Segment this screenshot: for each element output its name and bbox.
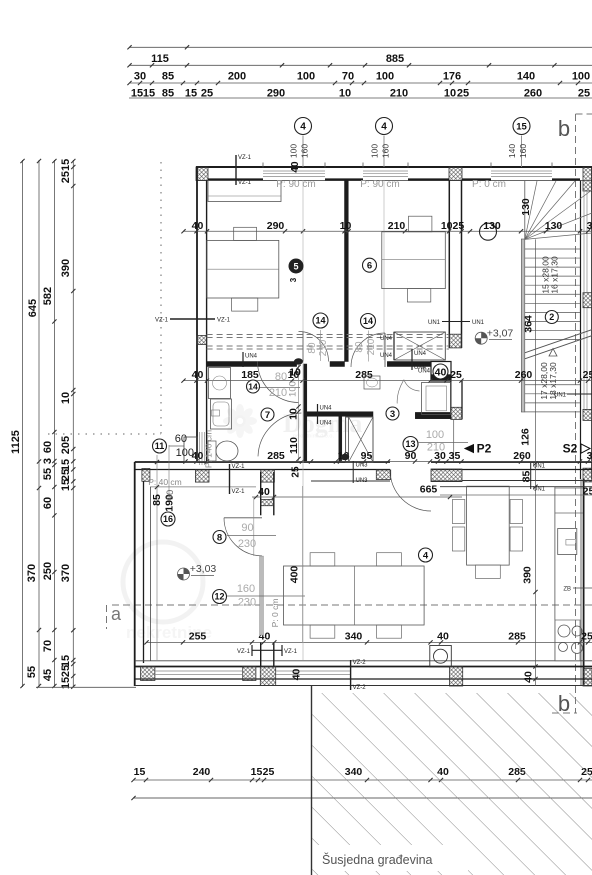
svg-text:210: 210 (427, 442, 445, 454)
wall room6 / stairwell x449-461 (448, 181, 450, 349)
baseline at bottom of left dims (36, 686, 136, 688)
svg-text:210: 210 (269, 387, 287, 399)
wall stub x260-274 (room16/living) (260, 472, 262, 515)
door 12 gray leaf (260, 556, 264, 635)
door arc room7 entry (258, 362, 299, 403)
window in left wall (bathroom P:140) (199, 432, 201, 465)
door 14 room5: pivot dot (294, 358, 303, 364)
svg-text:3: 3 (42, 458, 54, 464)
bed room 5 (207, 240, 279, 298)
svg-text:90: 90 (165, 490, 176, 501)
svg-text:250: 250 (42, 562, 54, 580)
svg-text:40: 40 (523, 671, 535, 683)
hatched pier wall stub lower end (261, 500, 274, 506)
svg-text:VZ-1: VZ-1 (238, 180, 252, 186)
svg-text:UN4: UN4 (245, 354, 258, 360)
svg-text:14: 14 (315, 316, 325, 326)
window in top wall (363, 170, 408, 172)
svg-text:25: 25 (263, 766, 275, 778)
P2 S2 section arrows (464, 444, 474, 453)
shaft 11 outside wall (184, 437, 197, 462)
svg-text:14: 14 (363, 316, 373, 326)
dim chain y380.6 (183, 380, 592, 382)
sink/hob circles (558, 625, 570, 637)
hatched pier left wall mid (197, 336, 207, 345)
wall stub lower x260-274 to bottom wall (260, 642, 262, 667)
svg-text:4: 4 (423, 550, 429, 561)
hatched pier right wall 1 (583, 293, 592, 308)
left dimension line 2 (645 370 55) (38, 160, 40, 687)
svg-text:15: 15 (60, 479, 72, 491)
svg-text:VZ-1: VZ-1 (232, 464, 246, 470)
hatched pier bottom wall a (141, 667, 155, 681)
inner floor line above bottom wall (135, 660, 592, 662)
svg-text:340: 340 (345, 631, 363, 643)
svg-text:90: 90 (241, 522, 253, 534)
left exterior wall (196, 167, 198, 462)
callout 15 third window (513, 118, 530, 135)
svg-text:UN4: UN4 (320, 406, 333, 412)
svg-text:210: 210 (388, 220, 406, 232)
door number 13 (403, 437, 418, 452)
svg-text:b: b (558, 116, 570, 141)
door number 14 room7 (247, 380, 260, 393)
svg-text:40: 40 (290, 161, 301, 173)
svg-text:VZ-1: VZ-1 (155, 318, 169, 324)
svg-text:95: 95 (361, 450, 373, 462)
svg-text:P: 40 cm: P: 40 cm (148, 477, 182, 487)
svg-text:370: 370 (60, 564, 72, 582)
svg-text:Šusjedna građevina: Šusjedna građevina (322, 852, 433, 867)
counter block outline (555, 620, 580, 661)
svg-text:130: 130 (483, 220, 501, 232)
svg-text:140: 140 (517, 71, 535, 83)
stair treads (525, 248, 580, 250)
windows bottom wall (155, 670, 242, 672)
top dimension chain row 3 (1515 85 1525 290 10 210 1025 260 25) (129, 82, 592, 84)
svg-text:80: 80 (307, 342, 318, 354)
svg-text:1025: 1025 (441, 220, 465, 232)
windows right wall (583, 191, 585, 292)
svg-text:UN4: UN4 (414, 365, 427, 371)
stair winder fan lines (525, 181, 537, 239)
svg-text:200: 200 (228, 71, 246, 83)
svg-text:+3,03: +3,03 (190, 563, 217, 575)
UN1 tie right wall (567, 393, 592, 395)
svg-text:60: 60 (42, 441, 54, 453)
room16 vertical dim line (156, 455, 158, 660)
toilet room3 (364, 376, 380, 389)
svg-text:70: 70 (342, 71, 354, 83)
svg-text:+3,07: +3,07 (487, 328, 514, 340)
wardrobe room5 top (208, 181, 281, 202)
svg-text:P: 90 cm: P: 90 cm (276, 179, 315, 190)
svg-text:P: 90 cm: P: 90 cm (360, 179, 399, 190)
leader door 14 labels (260, 387, 300, 389)
hatched pier top wall (449, 167, 462, 181)
ZB tie (573, 587, 592, 589)
level marker +3.03 (178, 568, 190, 580)
svg-text:UN1: UN1 (533, 464, 546, 470)
svg-text:260: 260 (515, 369, 533, 381)
section marker b bottom (552, 712, 577, 714)
chairs top (310, 553, 335, 566)
svg-text:130: 130 (520, 198, 532, 216)
dining table (284, 566, 425, 625)
svg-text:13: 13 (405, 439, 415, 449)
wall jamb x338.8-341.8 solid (339, 416, 342, 462)
stair cut break double diagonal (525, 336, 592, 359)
UN1 tie kitchen wall vertical (530, 463, 532, 489)
svg-text:70: 70 (42, 640, 54, 652)
hatched pier top-left corner (196, 167, 208, 181)
svg-text:160: 160 (300, 144, 310, 158)
room16 inner wall face line (150, 487, 152, 661)
UN4 ties room3 wall (317, 404, 319, 424)
kitchen low wall lines right part (462, 480, 592, 482)
svg-text:30: 30 (134, 71, 146, 83)
callout 4 first window (295, 118, 312, 135)
svg-text:3: 3 (587, 450, 592, 462)
room number 2 (staircase) (545, 311, 558, 324)
door number 14 room6 (361, 314, 376, 329)
svg-text:15: 15 (516, 121, 527, 132)
left dimension line 4 (2515 390 10 205 15 25 15 370 15 25 15) (72, 160, 74, 687)
svg-text:P: 0 cm: P: 0 cm (270, 599, 280, 628)
room number 6 (363, 258, 377, 272)
svg-text:260: 260 (513, 450, 531, 462)
svg-text:12: 12 (214, 592, 224, 602)
door number 14 room5 (313, 313, 328, 328)
svg-text:10: 10 (340, 220, 352, 232)
svg-text:100: 100 (288, 381, 299, 397)
room number 4 living room (419, 548, 433, 562)
watermark (123, 404, 362, 642)
svg-text:285: 285 (508, 631, 526, 643)
window in top wall (263, 170, 325, 172)
svg-text:210: 210 (366, 338, 377, 355)
svg-text:16: 16 (163, 514, 173, 524)
svg-text:390: 390 (522, 566, 534, 584)
hatched pier mid wall c (261, 470, 275, 482)
UN3 tie mid wall (352, 461, 354, 483)
shower south wall solid (415, 412, 451, 418)
svg-text:80: 80 (275, 371, 287, 383)
svg-text:40: 40 (258, 486, 270, 498)
door arc hall to living (390, 470, 431, 511)
svg-text:110: 110 (288, 437, 300, 454)
svg-text:3: 3 (289, 277, 298, 282)
svg-text:2: 2 (549, 312, 554, 322)
top exterior wall (196, 166, 592, 168)
svg-text:160: 160 (518, 144, 528, 158)
svg-text:255: 255 (189, 631, 207, 643)
toilet (208, 441, 216, 461)
dotted construction line vertical (160, 162, 162, 434)
svg-text:390: 390 (60, 259, 72, 277)
svg-text:210: 210 (318, 339, 329, 356)
nook chairs (452, 500, 464, 524)
svg-text:10: 10 (289, 367, 301, 379)
section line b dashed vertical (575, 114, 577, 713)
nook table (467, 486, 510, 565)
svg-text:4: 4 (300, 122, 306, 133)
hatched pier right wall 2 (583, 409, 592, 420)
svg-text:P: 0 cm: P: 0 cm (472, 179, 506, 190)
door number 8 (213, 531, 226, 544)
bathtub (211, 399, 232, 429)
door hall to room3 (petal) (404, 380, 420, 391)
leader door 12 labels (227, 595, 305, 597)
leader door 8 labels (227, 534, 276, 536)
svg-text:UN1: UN1 (428, 320, 441, 326)
hatched pier top-right corner (583, 167, 592, 191)
svg-text:130: 130 (545, 220, 563, 232)
svg-text:370: 370 (26, 564, 38, 582)
stair strip left stringer (521, 239, 525, 412)
hatched pier right of shower wall (451, 407, 462, 419)
svg-text:S2: S2 (563, 442, 578, 456)
wall corridor/room7 east x303.8-306.8 solid (304, 364, 307, 462)
room number 1 overlapping dim (480, 223, 497, 240)
svg-text:645: 645 (27, 299, 39, 317)
svg-text:25: 25 (583, 369, 592, 381)
svg-text:80: 80 (354, 341, 365, 353)
svg-text:VZ-1: VZ-1 (238, 155, 252, 161)
svg-text:11: 11 (155, 441, 165, 451)
window in top wall (491, 170, 552, 172)
svg-text:VZ-2: VZ-2 (353, 660, 367, 666)
svg-text:45: 45 (42, 669, 54, 681)
UN4 tie corridor (242, 352, 244, 367)
hatched pier mid wall b (195, 470, 209, 482)
right exterior wall (580, 181, 582, 480)
svg-text:4: 4 (381, 122, 387, 133)
callout 4 second window (376, 118, 393, 135)
svg-text:16 x17,30: 16 x17,30 (550, 256, 560, 294)
svg-text:8: 8 (217, 532, 222, 543)
svg-text:14: 14 (248, 382, 258, 392)
UN4 tie left of room6 shaft (393, 332, 395, 360)
svg-text:285: 285 (267, 450, 285, 462)
svg-text:15: 15 (134, 766, 146, 778)
svg-text:a: a (111, 604, 122, 624)
svg-text:P2: P2 (477, 442, 492, 456)
VZ-2 tie bottom wall (350, 660, 352, 690)
inner face thick segments between windows (208, 178, 263, 180)
chairs bottom (310, 625, 335, 638)
door 8 arc (224, 518, 262, 556)
washing machine (209, 368, 231, 399)
svg-text:160: 160 (237, 583, 255, 595)
svg-text:UN4: UN4 (380, 336, 393, 342)
bathroom door pivot dot (341, 454, 349, 460)
door arc room6 (351, 333, 385, 367)
level marker +3.07 (475, 332, 487, 344)
svg-text:25: 25 (291, 466, 302, 478)
svg-text:100: 100 (376, 71, 394, 83)
Susjedna gradevina label (318, 845, 468, 871)
plot line y798 (133, 797, 592, 799)
svg-text:UN4: UN4 (320, 421, 333, 427)
corridor wall below rooms 5/6 (y361-367) solid (207, 362, 297, 367)
svg-text:230: 230 (238, 538, 256, 550)
svg-text:85: 85 (162, 71, 174, 83)
svg-text:UN1: UN1 (554, 393, 567, 399)
bottom exterior wall (135, 666, 592, 668)
VZ-1 tie top wall (235, 155, 237, 185)
svg-text:VZ-1: VZ-1 (232, 489, 246, 495)
shaft number 11 (153, 439, 167, 453)
section line a dashed horizontal (112, 604, 592, 606)
svg-text:205: 205 (60, 436, 72, 454)
svg-text:25: 25 (581, 631, 592, 643)
left dimension line 1 (1125) (22, 160, 24, 687)
vertical dim line x302 living (400) (302, 486, 304, 642)
stair direction arrow head (549, 349, 557, 357)
door number 12 (213, 590, 227, 604)
svg-text:UN3: UN3 (356, 478, 369, 484)
svg-text:UN1: UN1 (472, 320, 485, 326)
stove/column box with circle (430, 646, 452, 668)
svg-text:40: 40 (192, 220, 204, 232)
dotted construction line horizontal (48, 433, 161, 435)
hatched pier bottom wall b (243, 667, 256, 681)
room number 16 (161, 512, 175, 526)
room 5 number blob (289, 259, 304, 274)
svg-text:10: 10 (288, 408, 300, 420)
room number 3 (386, 407, 399, 420)
dim chain y461.5 (185, 461, 592, 463)
svg-text:85: 85 (151, 494, 163, 506)
kitchen counter line (554, 487, 556, 661)
svg-text:15: 15 (251, 766, 263, 778)
svg-text:582: 582 (42, 287, 54, 305)
door arc room7 interior (258, 413, 301, 456)
svg-text:400: 400 (289, 566, 301, 584)
kitchen counter upper lines (555, 487, 583, 489)
svg-text:2515: 2515 (60, 159, 72, 183)
svg-text:60: 60 (175, 433, 187, 445)
stair mid landing edge (524, 181, 526, 239)
svg-text:UN1: UN1 (533, 487, 546, 493)
bed room 6 (382, 232, 446, 289)
svg-text:185: 185 (241, 369, 259, 381)
svg-text:P: 140 cm: P: 140 cm (204, 430, 214, 468)
ventilation shaft with X room6 (394, 332, 445, 360)
hatched pier bottom-right corner (583, 668, 592, 686)
hatched pier mid wall d (376, 470, 390, 480)
ventilation shaft with X room3 (346, 417, 373, 462)
svg-text:290: 290 (267, 220, 285, 232)
leader door 13 labels (418, 442, 468, 444)
bottom dim chain y780 (133, 779, 592, 781)
stair walk line vertical (535, 239, 537, 420)
svg-text:25: 25 (60, 665, 72, 677)
room3 north wall y411.7-416.3 solid (304, 412, 373, 417)
svg-text:160: 160 (381, 144, 391, 158)
svg-text:126: 126 (520, 428, 532, 446)
svg-text:100: 100 (289, 144, 299, 158)
svg-text:VZ-1: VZ-1 (217, 318, 231, 324)
dim chain y497 (665) (252, 496, 462, 498)
svg-text:35: 35 (449, 450, 461, 462)
svg-text:3: 3 (587, 220, 592, 232)
svg-text:40: 40 (437, 631, 449, 643)
svg-text:40: 40 (192, 369, 204, 381)
svg-text:140: 140 (507, 144, 517, 158)
door 8 leaf (224, 517, 262, 519)
hatched pier right wall 3 (583, 468, 592, 482)
svg-text:10: 10 (60, 392, 72, 404)
svg-text:885: 885 (386, 53, 404, 65)
hatched pier bottom wall d (450, 667, 463, 687)
door jamb line (253, 497, 255, 557)
left dimension line 3 (582 60 3 55 60 250 70 45) (53, 160, 55, 687)
svg-text:100: 100 (370, 144, 380, 158)
svg-text:176: 176 (443, 71, 461, 83)
svg-text:6: 6 (367, 261, 372, 272)
VZ-1 tie mid wall (229, 464, 231, 494)
room number 7 (261, 408, 274, 421)
svg-text:VZ-1: VZ-1 (284, 649, 298, 655)
UN1 tie stair hall (442, 321, 470, 323)
hatched pier mid wall a (142, 469, 150, 482)
svg-text:364: 364 (523, 315, 535, 333)
window P:40 sill line (150, 486, 256, 488)
svg-text:100: 100 (297, 71, 315, 83)
svg-text:UN4: UN4 (380, 353, 393, 359)
top dimension chain row 2 (30 85 200 100 70 100 176 140 100) (129, 64, 592, 66)
wall between room5 and room6 solid (345, 181, 349, 362)
svg-text:100: 100 (426, 429, 444, 441)
middle horizontal wall (y462-472) with opening 390-431 (135, 461, 390, 463)
svg-text:240: 240 (193, 766, 211, 778)
svg-text:7: 7 (265, 410, 270, 421)
svg-text:UN4: UN4 (414, 351, 427, 357)
svg-text:665: 665 (420, 484, 438, 496)
dim chain y642 (146, 641, 592, 643)
svg-text:VZ-2: VZ-2 (353, 685, 367, 691)
VZ-1 VZ-1 tie bottom-left (252, 649, 282, 651)
neighbour area boundary (311, 686, 313, 875)
dim chain y231 (183, 230, 592, 232)
lower-left exterior wall (134, 462, 136, 686)
fridge (558, 529, 577, 555)
svg-text:100: 100 (572, 71, 590, 83)
svg-text:40: 40 (291, 669, 303, 681)
svg-text:5: 5 (293, 262, 298, 272)
svg-text:3: 3 (390, 409, 395, 420)
svg-text:25: 25 (450, 369, 462, 381)
neighbour building hatched area (312, 693, 592, 875)
shower room3 (422, 383, 451, 415)
svg-text:60: 60 (42, 497, 54, 509)
svg-text:55: 55 (26, 666, 38, 678)
top dimension chain row 1 (115 | 885) (129, 46, 592, 48)
svg-text:25: 25 (583, 486, 592, 498)
hatched pier end of stair wall (449, 334, 461, 348)
pier with 40 label hall corner (431, 362, 451, 382)
svg-text:40: 40 (435, 367, 447, 379)
svg-text:VZ-1: VZ-1 (237, 649, 251, 655)
VZ-1 tie left wall (170, 318, 215, 320)
svg-text:230: 230 (238, 597, 256, 609)
svg-text:1125: 1125 (10, 430, 22, 454)
door arc room5 (299, 332, 329, 362)
hatched pier bottom wall c (260, 667, 275, 686)
svg-text:55: 55 (42, 468, 54, 480)
